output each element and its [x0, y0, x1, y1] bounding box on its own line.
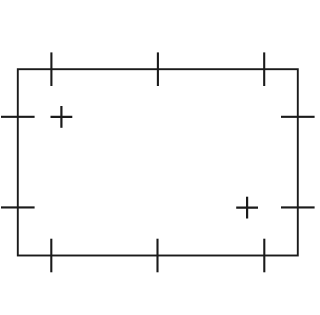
bottom edge tick 2 (center) [156, 239, 158, 273]
rectangle frame [18, 69, 298, 255]
interior cross mark 1 [51, 106, 73, 128]
left edge tick 1 [1, 116, 35, 118]
left edge tick 2 [1, 206, 35, 208]
top edge tick 3 [263, 52, 265, 86]
interior cross mark 2 [236, 197, 258, 219]
top edge tick 2 (center) [157, 52, 159, 86]
bottom edge tick 1 [50, 239, 52, 273]
right edge tick 1 [281, 116, 315, 118]
bottom edge tick 3 [263, 239, 265, 273]
top edge tick 1 [50, 52, 52, 86]
right edge tick 2 [281, 206, 315, 208]
